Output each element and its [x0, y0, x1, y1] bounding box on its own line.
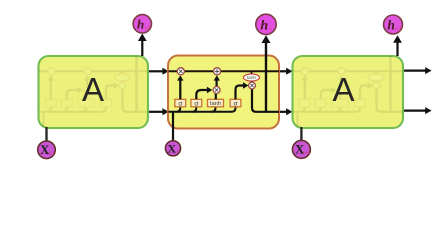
svg-text:X: X: [168, 141, 177, 155]
wire x_t into h line: [172, 112, 174, 141]
wire C line branch down to output tanh: [251, 71, 253, 74]
wire forget gate to multiply op: [177, 75, 183, 99]
cell A (t+1) body: [293, 56, 404, 128]
sigma gate box 3 (output): [230, 99, 241, 107]
hidden state line h (bottom left segment): [169, 107, 236, 112]
wire output tanh to multiply op 3: [251, 81, 253, 82]
ghost internals of cell A (t+1): [293, 43, 404, 129]
wire multiply op 2 to add op: [214, 75, 220, 86]
branch to candidate tanh: [212, 107, 216, 112]
svg-text:A: A: [82, 71, 104, 108]
wire h arrow: LSTM cell to right cell (bottom): [279, 108, 293, 115]
sigma gate box 2 (input): [191, 99, 202, 107]
output tanh ellipse: [244, 74, 260, 81]
wire h arrow: right cell output (bottom): [403, 107, 432, 114]
wire arrow up to h_{t+1}: [393, 35, 402, 56]
cell A (t-1) body: [39, 56, 149, 128]
svg-text:tanh: tanh: [210, 101, 221, 107]
multiply op circle 2 (input): [213, 87, 220, 94]
svg-text:h: h: [137, 17, 144, 32]
wire candidate tanh to multiply op 2: [215, 94, 217, 100]
svg-text:t-1: t-1: [49, 151, 55, 157]
node x_t: [165, 141, 180, 156]
wire C arrow: LSTM cell to right cell (top): [279, 68, 293, 75]
node h_{t+1}: [384, 15, 403, 34]
multiply op circle 1 (forget): [177, 68, 184, 75]
wire arrow up to h_{t-1}: [138, 34, 147, 57]
wire h arrow: left cell to LSTM cell (bottom): [148, 108, 169, 115]
sigma gate box 1 (forget): [175, 99, 186, 107]
wire input gate to multiply op 2: [196, 87, 212, 100]
svg-text:h: h: [387, 17, 395, 32]
add op circle: [213, 68, 220, 75]
cell state line C (top): [169, 70, 280, 72]
wire C arrow: right cell output (top): [403, 67, 432, 74]
node h_t: [256, 14, 276, 34]
wire x_{t+1} stem: [300, 127, 302, 141]
wire h_t branch up through cell: [262, 35, 271, 112]
wire output gate to multiply op 3: [236, 82, 249, 99]
svg-text:h: h: [260, 19, 268, 34]
ghost internals of cell A (t-1): [39, 43, 150, 129]
svg-text:t+1: t+1: [303, 151, 311, 157]
node x_{t-1}: [38, 141, 56, 159]
branch to forget gate: [176, 107, 180, 112]
node h_{t-1}: [133, 15, 151, 33]
svg-text:t+1: t+1: [395, 27, 402, 32]
wire multiply op 3 down to output h line: [252, 89, 279, 112]
tanh gate box (candidate): [208, 99, 224, 107]
svg-text:A: A: [332, 71, 354, 108]
wire C/h arrow: left cell to LSTM cell (top): [148, 68, 169, 75]
svg-text:X: X: [40, 143, 49, 157]
branch to input gate: [192, 107, 196, 112]
multiply op circle 3 (output): [249, 82, 256, 89]
svg-text:tanh: tanh: [247, 75, 256, 80]
node x_{t+1}: [292, 140, 310, 158]
wire x_{t-1} stem: [45, 127, 47, 141]
LSTM cell body: [168, 56, 279, 129]
svg-text:t-1: t-1: [145, 27, 151, 32]
